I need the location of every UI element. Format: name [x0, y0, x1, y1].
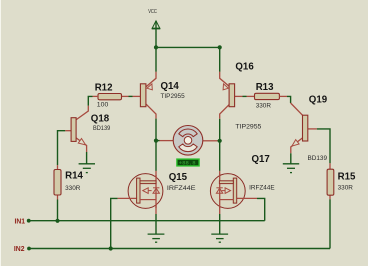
- svg-text:IRFZ44E: IRFZ44E: [167, 185, 196, 192]
- mosfet Q15 body diode: [153, 188, 159, 194]
- wire Q17 source to ground: [219, 214, 221, 234]
- wire top rail: [156, 46, 220, 48]
- mosfet Q17 arrow: [222, 188, 231, 194]
- transistor Q14 emitter arrow: [147, 84, 152, 90]
- svg-text:Q18: Q18: [91, 114, 110, 125]
- node junction motor left: [154, 139, 158, 143]
- resistor R12: [98, 94, 122, 100]
- mosfet Q17 drain inside line: [219, 175, 221, 208]
- wire IN1 rail: [29, 220, 265, 222]
- transistor Q19 base pin: [308, 128, 317, 130]
- wire Q19 emitter to ground: [290, 153, 292, 163]
- mosfet Q17 gate pin: [237, 197, 257, 199]
- wire Q18 base to R14: [58, 131, 66, 165]
- terminal IN1: [27, 219, 31, 223]
- node junction R14/IN1: [55, 219, 59, 223]
- mosfet Q17 body diode: [216, 188, 222, 194]
- transistor Q19 body: [303, 115, 308, 141]
- mosfet Q15 gate bar: [137, 178, 140, 203]
- mosfet Q15 arrow: [143, 188, 152, 194]
- svg-text:BD139: BD139: [93, 125, 111, 132]
- mosfet Q17 bottom line: [220, 199, 234, 201]
- transistor Q18 base pin: [65, 130, 71, 132]
- mosfet Q15 body circle: [128, 174, 163, 209]
- mosfet Q15 gate pin: [118, 197, 137, 199]
- svg-text:R12: R12: [95, 82, 113, 93]
- ground under Q18: [79, 164, 95, 173]
- resistor R13: [255, 93, 280, 99]
- svg-text:R13: R13: [256, 82, 274, 93]
- node junction top-left: [154, 45, 158, 49]
- transistor Q18 emitter pin: [76, 138, 87, 152]
- transistor Q19 collector pin: [291, 103, 303, 115]
- svg-text:330R: 330R: [65, 185, 81, 192]
- svg-text:330R: 330R: [256, 103, 272, 110]
- motor rpm readout box: [177, 159, 199, 167]
- transistor Q14 pins: [122, 72, 157, 119]
- mosfet Q17 top bar: [219, 181, 233, 184]
- transistor Q18 collector pin: [76, 106, 88, 120]
- mosfet Q15 top bar: [140, 181, 156, 184]
- ground under Q17: [211, 234, 228, 242]
- motor right lead: [203, 140, 220, 142]
- wire Q15 gate run: [111, 198, 118, 248]
- transistor Q19 emitter arrow: [292, 140, 299, 147]
- mosfet Q15 drain inside line: [155, 175, 157, 208]
- terminal IN2: [27, 247, 31, 251]
- wire Q14 base to R12: [129, 95, 133, 97]
- transistor Q19 emitter pin: [291, 138, 303, 153]
- transistor Q16 body: [229, 84, 235, 107]
- resistor R14: [54, 170, 61, 196]
- svg-text:100: 100: [97, 101, 109, 108]
- svg-text:VCC: VCC: [148, 9, 157, 15]
- ground under Q15: [148, 234, 165, 242]
- svg-text:IRFZ44E: IRFZ44E: [249, 184, 275, 191]
- resistor R15: [327, 169, 334, 195]
- svg-text:Q19: Q19: [309, 95, 328, 106]
- transistor Q14 body: [140, 84, 146, 107]
- svg-text:IN1: IN1: [15, 219, 26, 226]
- svg-text:TIP2955: TIP2955: [235, 124, 261, 131]
- wire Q16 base to R13: [243, 95, 247, 97]
- transistor Q16 pins: [220, 72, 255, 119]
- wire Q15 source to ground: [155, 214, 157, 234]
- svg-text:330R: 330R: [338, 185, 354, 192]
- wire R13 to Q19 collector: [287, 96, 291, 103]
- wire Q19 base to R15: [317, 129, 330, 163]
- node junction top-right: [218, 45, 222, 49]
- transistor Q18 body: [71, 118, 76, 142]
- wire Q16 collector drop: [219, 119, 221, 171]
- svg-text:+88.8: +88.8: [179, 160, 196, 167]
- resistor R13 right pin: [279, 95, 287, 97]
- resistor R15 pins: [329, 163, 331, 199]
- wire R12 to Q18 collector: [88, 96, 92, 105]
- node junction motor right: [218, 139, 222, 143]
- left edge light line: [0, 0, 1, 266]
- svg-text:IN2: IN2: [14, 246, 25, 253]
- wire IN2 rail: [29, 248, 330, 250]
- motor body: [173, 126, 203, 156]
- mosfet Q15 drain-source line: [155, 171, 157, 214]
- svg-text:Q14: Q14: [161, 81, 180, 92]
- transistor Q16 emitter arrow: [223, 84, 228, 90]
- wire R14 to IN1: [57, 200, 59, 221]
- mosfet Q15 bottom line: [140, 199, 156, 201]
- motor left lead: [156, 140, 173, 142]
- motor top pole: [179, 129, 198, 137]
- node junction gate/IN2: [109, 246, 113, 250]
- mosfet Q17 gate bar: [233, 178, 236, 203]
- resistor R14 pins: [57, 165, 59, 199]
- svg-text:Q17: Q17: [252, 154, 270, 165]
- motor shaft: [184, 137, 192, 145]
- wire IN1 riser to Q17 gate: [257, 198, 265, 220]
- wire left emitter drop: [155, 47, 157, 71]
- ground under Q19: [283, 164, 299, 173]
- svg-text:R14: R14: [65, 171, 83, 182]
- mosfet Q17 drain-source line: [219, 171, 221, 214]
- wire right emitter drop: [219, 47, 221, 71]
- svg-text:Q15: Q15: [169, 172, 188, 183]
- wire IN2 riser to R15: [329, 199, 331, 248]
- power symbol VCC: [152, 21, 161, 48]
- wire Q14 collector drop: [155, 119, 157, 171]
- svg-text:Q16: Q16: [235, 62, 254, 73]
- wire Q18 emitter to ground: [86, 152, 88, 164]
- svg-text:R15: R15: [338, 172, 356, 183]
- motor bottom pole: [179, 144, 198, 152]
- mosfet Q17 body circle: [210, 174, 245, 209]
- transistor Q18 emitter arrow: [78, 139, 85, 145]
- svg-text:TIP2955: TIP2955: [161, 93, 186, 100]
- svg-text:BD139: BD139: [308, 155, 328, 162]
- resistor R12 left pin: [93, 95, 99, 97]
